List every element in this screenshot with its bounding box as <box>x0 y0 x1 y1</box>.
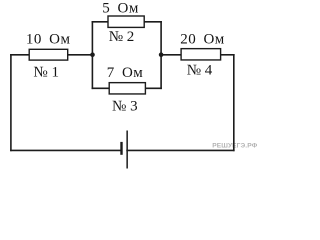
wire: bottom branch left horizontal <box>92 87 109 89</box>
svg-text:РЕШУЕГЭ.РФ: РЕШУЕГЭ.РФ <box>212 142 257 149</box>
wire: bottom rail right segment from battery <box>127 149 234 151</box>
battery positive plate (long thin) <box>126 131 128 169</box>
resistor R4 body <box>181 49 221 60</box>
resistor R1 body <box>29 49 67 60</box>
node A junction dot <box>90 52 95 57</box>
wire: node B to R4 <box>161 54 182 56</box>
wire: node A vertical branch split <box>91 22 93 89</box>
battery negative plate (short thick) <box>120 142 122 155</box>
wire: node B vertical branch merge <box>160 22 162 89</box>
wire: R1 to node A <box>68 54 93 56</box>
svg-text:7 Ом: 7 Ом <box>107 65 144 81</box>
svg-text:№ 2: № 2 <box>109 29 135 45</box>
resistor R2 body <box>108 16 144 27</box>
wire: right vertical rail <box>233 55 235 151</box>
svg-text:№ 3: № 3 <box>112 98 138 114</box>
wire: top branch left horizontal <box>92 21 108 23</box>
wire: bottom rail left segment to battery <box>11 149 120 151</box>
svg-text:20 Ом: 20 Ом <box>180 32 225 48</box>
wire: left stub into R1 <box>11 54 29 56</box>
svg-text:№ 4: № 4 <box>187 62 213 78</box>
resistor R3 body <box>109 83 145 94</box>
wire: left vertical rail <box>10 55 12 151</box>
svg-text:10 Ом: 10 Ом <box>26 31 71 47</box>
svg-text:№ 1: № 1 <box>33 65 59 81</box>
wire: R4 to right corner <box>220 54 234 56</box>
svg-text:5 Ом: 5 Ом <box>102 1 139 17</box>
node B junction dot <box>159 52 164 57</box>
wire: bottom branch right horizontal <box>145 87 161 89</box>
wire: top branch right horizontal <box>144 21 161 23</box>
